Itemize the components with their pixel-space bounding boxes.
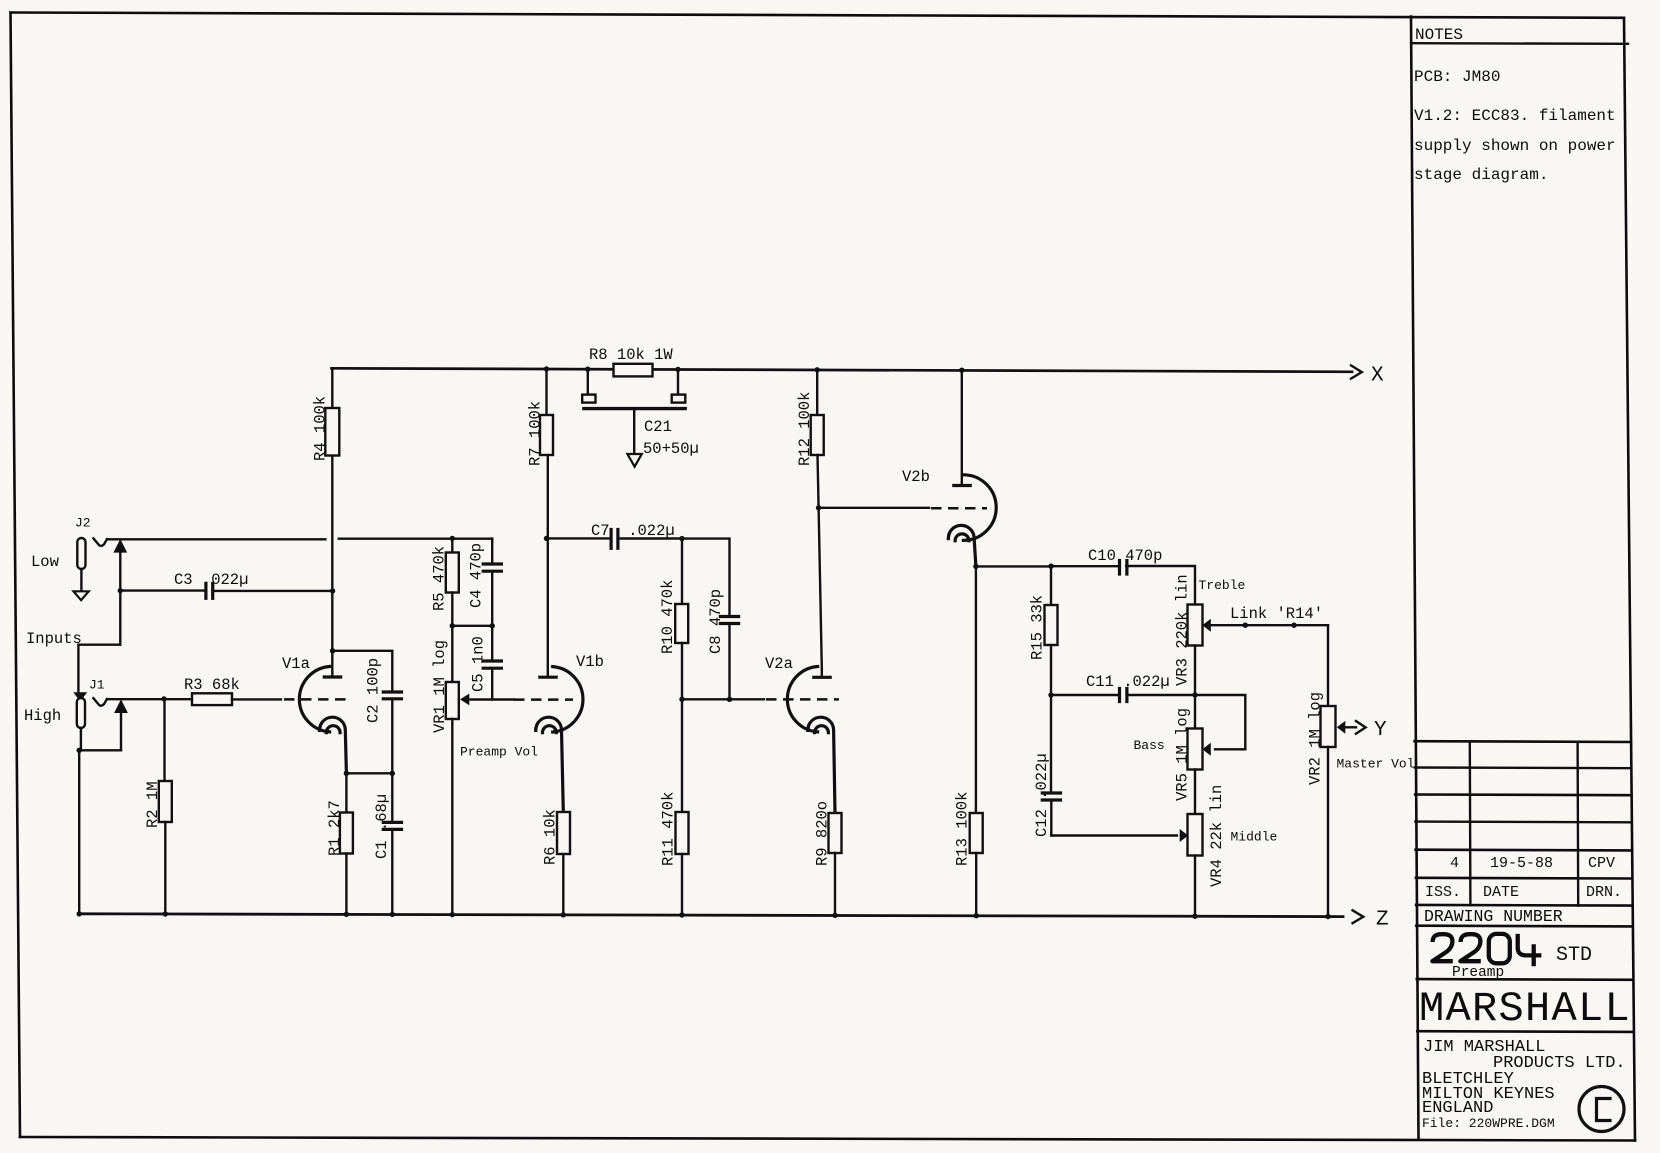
resistor R9 [829,813,842,915]
capacitor C21 pads [582,369,685,402]
svg-text:Y: Y [1374,719,1387,742]
capacitor C1 [383,773,401,914]
title block: note valve line 3 [1414,166,1548,184]
svg-text:Bass: Bass [1134,738,1165,753]
wire: J2 tip to C4/R5 node (break at R4 crossing) [107,538,492,541]
svg-text:J2: J2 [75,516,91,531]
svg-text:Treble: Treble [1199,578,1246,593]
capacitor C7 [611,530,618,549]
resistor R6 [557,812,570,915]
junction dots on ground rail [77,911,1331,919]
capacitor C11 [1120,689,1127,702]
svg-text:C4 470p: C4 470p [468,543,486,608]
svg-text:NOTES: NOTES [1415,26,1463,44]
capacitor C11 label [1086,673,1170,691]
resistor R10 label [659,580,677,654]
V2b grid dashed [931,507,987,510]
title block: address Milton Keynes [1422,1085,1555,1104]
potentiometer VR4 wiper [1180,829,1189,842]
triode V2a label [765,655,793,673]
svg-text:File: 220WPRE.DGM: File: 220WPRE.DGM [1422,1116,1555,1131]
capacitor C21 plate [582,407,687,410]
junction dot R5 top [450,536,455,541]
potentiometer VR2 wiper [1337,721,1356,734]
svg-text:19-5-88: 19-5-88 [1490,855,1553,872]
potentiometer VR1 label [431,640,449,733]
title block: drawing number 2204 [1432,934,1541,966]
capacitor C3 [206,584,213,599]
jack J2 sleeve open arrow [74,591,89,600]
title block: NOTES header [1415,26,1463,44]
title block: note valve line 1 [1414,107,1616,125]
title block: issue number cell [1450,855,1459,872]
capacitor C2 [383,692,401,699]
Treble label [1199,578,1246,593]
junction dot C10 / R15 [1048,564,1053,569]
capacitor C4 [483,539,501,627]
resistor R5 [446,538,459,626]
svg-text:Preamp Vol: Preamp Vol [460,745,538,760]
svg-text:Z: Z [1376,909,1389,932]
jack J1 tip contact [93,698,107,706]
wire: C12 to VR4 wiper [1051,834,1177,836]
wire: R3 to V1a grid [232,698,281,700]
capacitor C10 [1120,561,1127,575]
svg-text:MARSHALL: MARSHALL [1419,985,1631,1033]
potentiometer VR5 label [1174,708,1192,801]
resistor R12 [811,370,824,508]
triode V1a anode [324,456,340,678]
wire: J2 shunt to J1 input link [78,645,120,693]
resistor R7 [540,369,553,456]
svg-text:Link 'R14': Link 'R14' [1230,605,1323,623]
node Z label [1376,909,1389,932]
title block: company name line 2 [1493,1054,1626,1073]
Master Vol label [1337,756,1415,771]
capacitor C1 label [373,794,391,859]
jack J1 entry arrow [73,692,87,701]
Middle label [1231,830,1278,845]
capacitor C11 wire right [1127,694,1195,696]
triode V1a label [282,655,310,673]
resistor R9 label [814,801,832,866]
svg-text:VR4 22k lin: VR4 22k lin [1208,785,1226,887]
node Y label [1374,719,1387,742]
svg-text:R8 10k 1W: R8 10k 1W [589,346,673,364]
resistor R8 [614,364,653,377]
capacitor C7 label [591,522,675,540]
capacitor C7 wire right [619,537,682,539]
triode V2a envelope [787,667,817,732]
triode V1b label [576,653,604,671]
jack J1 label [89,678,105,693]
wire: anode to C2 [333,651,393,692]
title block: company name line 1 [1423,1038,1545,1057]
capacitor C10 label [1088,547,1162,565]
triode V2b anode [954,370,970,485]
resistor R4 [325,368,339,455]
svg-text:C1 .68µ: C1 .68µ [373,794,391,859]
title block: note valve line 2 [1414,137,1616,155]
title block: drawn-by cell [1588,855,1615,872]
node X label [1371,365,1384,388]
title block: file name [1422,1116,1555,1131]
junction dot C7 right / R10 [679,536,684,541]
potentiometer VR1 wiper [460,694,514,706]
High label [24,707,61,725]
capacitor C21 ground arrow [627,454,641,467]
svg-text:X: X [1371,365,1384,388]
capacitor C21 value [643,440,699,458]
capacitor C2 label [365,658,383,723]
potentiometer VR1 [446,626,459,915]
title block: DRN. label [1586,884,1622,901]
resistor R8 label [589,346,673,364]
resistor R5 label [431,546,449,611]
svg-text:C3 .022µ: C3 .022µ [174,571,248,589]
svg-text:C2 100p: C2 100p [365,658,383,723]
node X arrowhead [1351,365,1362,378]
svg-text:C8 470p: C8 470p [707,589,725,654]
wire: link R14 [1211,624,1328,626]
triode V1a cathode [319,717,346,773]
junction dot J1 sleeve link [77,748,82,753]
wire: ground rail to node Z [79,914,1343,917]
resistor R12 label [796,392,814,466]
junction dot C7 left [544,536,549,541]
svg-text:V2b: V2b [902,468,930,486]
capacitor C7 wire left [547,537,611,539]
capacitor C11 wire left [1051,694,1117,696]
node Z arrowhead [1353,910,1364,923]
junction dot J2 shunt / C3 [118,588,123,593]
junction dot R15 / C11 [1048,692,1053,697]
node Y arrowhead [1356,721,1366,734]
svg-text:supply shown on power: supply shown on power [1414,137,1616,155]
svg-text:Middle: Middle [1231,830,1278,845]
svg-text:STD: STD [1556,944,1592,967]
svg-text:V2a: V2a [765,655,793,673]
triode V2b label [902,468,930,486]
wire: cathode node to C1 [346,772,392,774]
potentiometer VR2 [1321,625,1336,916]
capacitor C12 label [1033,753,1051,837]
Inputs label [26,630,82,648]
title block: note PCB type [1414,68,1500,86]
title block: copyright symbol [1579,1087,1624,1132]
svg-text:V1a: V1a [282,655,310,673]
junction dot R5 bottom row [450,623,495,628]
svg-text:ISS.: ISS. [1425,884,1461,901]
capacitor C21 label [644,418,672,436]
svg-text:J1: J1 [89,678,105,693]
resistor R7 label [527,401,545,466]
junction dot R2 top [161,696,166,701]
triode V1a envelope [299,667,329,732]
junction dot V1a cathode node [344,771,395,776]
jack J2 label [75,516,91,531]
wire: C7 node to C8 [682,539,730,617]
junction dots on link R14 [1243,623,1297,628]
svg-text:4: 4 [1450,855,1459,872]
svg-text:C21: C21 [644,418,672,436]
junction dot R12 / V2b grid [816,505,821,510]
resistor R10 [675,539,688,700]
title block: address Bletchley [1422,1070,1514,1089]
svg-text:DRAWING NUMBER: DRAWING NUMBER [1424,907,1563,926]
triode V1b envelope [553,667,583,732]
capacitor C8 [720,617,738,700]
junction dots on HT rail [544,366,965,373]
junction dot V2a grid node [679,697,732,703]
resistor R15 label [1029,595,1047,660]
capacitor C3 label [174,571,248,589]
wire: C2 to cathode node [391,699,393,774]
svg-text:stage diagram.: stage diagram. [1414,166,1548,184]
wire: J1 sleeve to ground rail [79,728,121,914]
title block: ISS. label [1425,884,1461,901]
potentiometer VR5 wiper [1202,743,1211,756]
wire: R5/C4 bottom link [452,625,492,627]
capacitor C3 wire left [120,589,204,591]
svg-text:C10 470p: C10 470p [1088,547,1162,565]
V1b grid dashed [514,698,573,701]
Preamp Vol label [460,745,538,760]
jack J1 shorting contact arrow [114,699,128,750]
svg-text:V1b: V1b [576,653,604,671]
capacitor C3 wire right [214,590,333,592]
capacitor C21 ground stem [633,409,635,454]
svg-text:Inputs: Inputs [26,630,82,648]
resistor R11 [676,699,689,915]
title block: MARSHALL logo [1419,985,1631,1033]
svg-text:High: High [24,707,61,725]
svg-text:CPV: CPV [1588,855,1615,872]
title block: DATE label [1483,884,1519,901]
jack J2 shorting contact arrow [113,539,127,645]
title block: DRAWING NUMBER header [1424,907,1563,926]
potentiometer VR2 label [1307,692,1325,785]
junction dot VR3 bottom / C11 [1192,692,1197,697]
potentiometer VR4 label [1208,785,1226,887]
svg-text:R3 68k: R3 68k [184,676,240,694]
V2a grid dashed [766,698,839,701]
svg-text:C5 1n0: C5 1n0 [470,636,488,692]
svg-text:50+50µ: 50+50µ [643,440,699,458]
junction dot anode / C2 branch [330,648,335,653]
capacitor C12 [1042,695,1060,836]
title block: STD suffix [1556,944,1592,967]
resistor R4 label [312,396,330,461]
resistor R13 [970,566,983,915]
resistor R3 label [184,676,240,694]
resistor R1 label [326,800,344,856]
title block: date cell [1490,855,1553,872]
triode V1b anode [540,455,556,677]
capacitor C4 label [468,543,486,608]
resistor R1 [340,773,353,914]
capacitor C8 label [707,589,725,654]
svg-text:DATE: DATE [1483,884,1519,901]
capacitor C10 wire left [1051,565,1118,567]
resistor R13 label [954,792,972,866]
jack J2 tip contact [93,538,107,546]
potentiometer VR3 label [1174,574,1192,686]
svg-text:PCB: JM80: PCB: JM80 [1414,68,1500,86]
junction dot V2b cathode node [973,564,978,569]
V1a grid dashed [284,698,351,701]
potentiometer VR3 wiper [1202,619,1211,632]
Bass label [1134,738,1165,753]
svg-text:Low: Low [31,553,60,571]
potentiometer VR4 [1188,814,1203,916]
triode V2b envelope [963,475,996,541]
triode V1b cathode [536,717,564,812]
title block: address England [1422,1099,1493,1118]
wire: V2b cathode node to tone stack [976,565,1051,567]
triode V2a anode [814,508,830,678]
Low label [31,553,60,571]
resistor R2 label [144,781,162,828]
jack J2 Low input [77,538,85,591]
resistor R6 label [542,809,560,865]
potentiometer VR5 [1188,695,1203,814]
svg-text:Preamp: Preamp [1452,965,1504,981]
potentiometer VR3 [1188,605,1203,696]
resistor R3 [192,693,232,705]
triode V2a cathode [808,717,835,813]
title block: Preamp sub-label [1452,965,1504,981]
resistor R11 label [660,792,678,866]
svg-text:DRN.: DRN. [1586,884,1622,901]
wire: V2b grid [819,507,929,509]
resistor R15 [1045,566,1058,695]
triode V2b cathode [948,525,976,566]
capacitor C5 [483,626,501,700]
svg-text:C12 .022µ: C12 .022µ [1033,753,1051,837]
capacitor C10 wire right [1126,566,1195,605]
Link R14 label [1230,605,1323,623]
wire: J1 tip to R3 [107,698,192,700]
svg-text:Master Vol: Master Vol [1337,756,1415,771]
capacitor C5 label [470,636,488,692]
svg-text:V1.2: ECC83. filament: V1.2: ECC83. filament [1414,107,1616,125]
wire: HT supply rail to node X [332,368,1353,372]
wire: V2a grid [682,698,764,700]
wire: VR3 bottom to VR5 wiper [1195,695,1245,749]
jack J1 High input [77,698,85,728]
resistor R2 [159,699,172,914]
junction dot C3 / V1a anode [330,588,335,593]
